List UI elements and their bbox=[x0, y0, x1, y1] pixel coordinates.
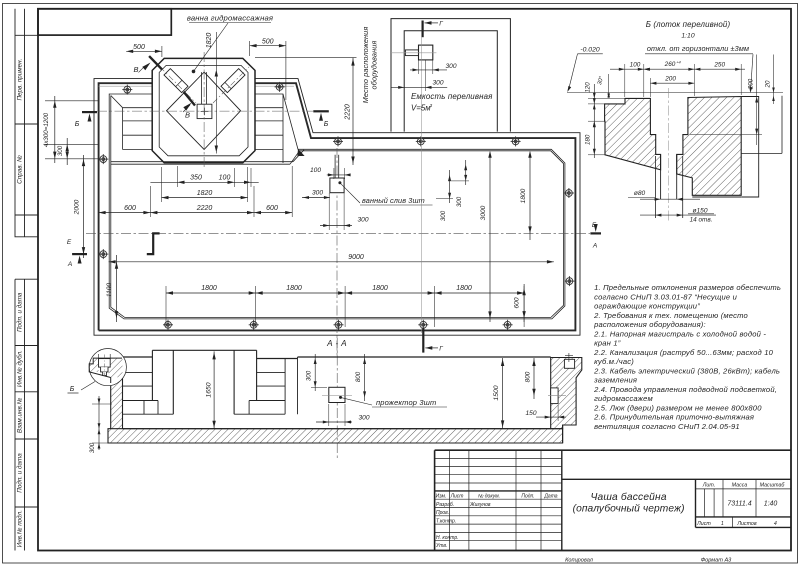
section A-A centerline bbox=[336, 338, 338, 458]
svg-text:Изм.: Изм. bbox=[436, 494, 447, 500]
section mark B-cut left bbox=[82, 111, 97, 113]
dim 300 tank upper bbox=[410, 69, 447, 71]
overflow tank bbox=[419, 45, 433, 60]
section floor slab hatched bbox=[108, 429, 563, 443]
svg-text:300: 300 bbox=[456, 196, 463, 207]
svg-text:100: 100 bbox=[219, 175, 231, 182]
svg-text:14 отв.: 14 отв. bbox=[690, 217, 713, 224]
section left wall hatched bbox=[111, 377, 123, 428]
svg-text:150: 150 bbox=[525, 410, 536, 417]
left vertical dim 4x300=1200 bbox=[45, 100, 98, 102]
svg-text:Разраб.: Разраб. bbox=[436, 502, 454, 508]
svg-text:2220: 2220 bbox=[196, 205, 213, 212]
svg-text:Е: Е bbox=[592, 222, 597, 229]
svg-text:500: 500 bbox=[262, 39, 274, 46]
svg-text:1:10: 1:10 bbox=[681, 33, 694, 40]
svg-text:100: 100 bbox=[310, 167, 321, 174]
pool plan outer thin outline R1 bbox=[94, 58, 580, 335]
svg-text:9000: 9000 bbox=[348, 254, 364, 261]
tank centerline bbox=[391, 52, 436, 54]
svg-text:Формат А3: Формат А3 bbox=[701, 558, 732, 564]
section cut B-B line bbox=[149, 56, 162, 69]
svg-text:2.2. Канализация (раструб 50..: 2.2. Канализация (раструб 50...63мм; рас… bbox=[593, 348, 774, 357]
svg-text:Подп.: Подп. bbox=[521, 494, 534, 500]
svg-text:300: 300 bbox=[440, 210, 447, 221]
detail circle callout bbox=[89, 349, 126, 386]
dim 300 drain left bbox=[302, 197, 330, 199]
svg-text:600: 600 bbox=[514, 297, 521, 308]
svg-text:1650: 1650 bbox=[206, 382, 213, 397]
stairs right of bath bbox=[255, 107, 283, 109]
equipment room outer wall bbox=[391, 19, 510, 132]
svg-text:300: 300 bbox=[358, 415, 369, 422]
svg-text:300: 300 bbox=[89, 442, 96, 453]
section basin floor line bbox=[123, 428, 551, 430]
svg-text:Б (лоток переливной): Б (лоток переливной) bbox=[646, 20, 731, 29]
dim 1820 under bath bbox=[162, 197, 248, 199]
svg-text:4х300=1200: 4х300=1200 bbox=[43, 112, 50, 147]
svg-text:300: 300 bbox=[445, 63, 456, 70]
svg-text:вентиляция согласно СНиП 2.04.: вентиляция согласно СНиП 2.04.05-91 bbox=[594, 422, 740, 431]
svg-text:2.6. Принудительная приточно-в: 2.6. Принудительная приточно-вытяжная bbox=[593, 413, 754, 422]
section A-A step mark bbox=[147, 233, 160, 254]
svg-text:300: 300 bbox=[432, 80, 443, 87]
dim 800 section right bbox=[533, 358, 535, 399]
bath inner octagon bbox=[159, 65, 248, 155]
svg-text:Н. контр.: Н. контр. bbox=[436, 535, 459, 541]
detail B white column bbox=[741, 97, 759, 198]
dim 300 drain bottom bbox=[320, 225, 352, 227]
bath drain pipe bbox=[201, 72, 203, 104]
dim 2220 vertical right of bath bbox=[255, 57, 357, 59]
svg-text:согласно СНиП 3.03.01-87 “Несу: согласно СНиП 3.03.01-87 “Несущие и bbox=[594, 292, 738, 301]
svg-text:2.3. Кабель электрический (380: 2.3. Кабель электрический (380В, 26кВт);… bbox=[593, 366, 780, 375]
section left stairs bbox=[123, 372, 153, 374]
dim 600 vertical right bbox=[523, 284, 525, 322]
svg-text:ванна гидромассажная: ванна гидромассажная bbox=[187, 14, 273, 23]
svg-text:Инв.№ подл.: Инв.№ подл. bbox=[16, 510, 24, 547]
hydromassage bath outer octagon bbox=[152, 58, 255, 162]
detail B right dim 20 bbox=[773, 55, 775, 105]
dim 300 tank lower bbox=[391, 86, 447, 88]
detail circle label bbox=[81, 382, 95, 391]
svg-text:Утв.: Утв. bbox=[436, 543, 447, 549]
left vertical dim 300 bbox=[66, 138, 68, 165]
svg-text:3000: 3000 bbox=[480, 205, 487, 220]
svg-text:500: 500 bbox=[133, 44, 145, 51]
svg-text:1: 1 bbox=[721, 521, 724, 527]
svg-text:Т.контр.: Т.контр. bbox=[436, 518, 456, 524]
elevated section bottom edge double line bbox=[111, 161, 293, 163]
svg-text:прожектор 3шт: прожектор 3шт bbox=[376, 398, 436, 407]
detail B right dim 200 bbox=[756, 55, 758, 146]
drain pipe from wall bbox=[334, 155, 336, 178]
svg-text:2.4. Провода управления подвод: 2.4. Провода управления подводной подсве… bbox=[593, 385, 777, 394]
svg-text:Подп. и дата: Подп. и дата bbox=[16, 292, 24, 332]
svg-text:300: 300 bbox=[312, 190, 323, 197]
svg-text:заземления: заземления bbox=[593, 376, 637, 385]
drain pipe inner d80 bbox=[660, 154, 662, 199]
pool plan gray edge line bbox=[99, 85, 153, 87]
svg-text:1820: 1820 bbox=[206, 33, 213, 49]
svg-text:300: 300 bbox=[306, 370, 313, 381]
svg-text:2000: 2000 bbox=[74, 199, 81, 215]
dim 500 right bbox=[250, 45, 286, 47]
svg-text:Инв.№ дубл.: Инв.№ дубл. bbox=[16, 350, 24, 387]
section right ledge bbox=[551, 388, 558, 404]
svg-text:1100: 1100 bbox=[106, 283, 113, 298]
svg-text:200: 200 bbox=[748, 78, 755, 90]
spotlight leader bbox=[341, 397, 373, 405]
svg-text:оборудования: оборудования bbox=[370, 41, 379, 90]
section mark B-cut right bbox=[313, 110, 329, 112]
dim 300 spotlight top bbox=[314, 354, 316, 391]
svg-text:1820: 1820 bbox=[197, 190, 213, 197]
svg-text:1800: 1800 bbox=[286, 285, 302, 292]
svg-text:Дата: Дата bbox=[543, 494, 557, 500]
dim 300 vertical drain b bbox=[465, 160, 467, 185]
svg-text:Лист: Лист bbox=[450, 494, 464, 500]
section bath left wall bbox=[151, 350, 153, 400]
dim 800 spotlight bbox=[364, 354, 366, 401]
dim 500 left bbox=[126, 50, 162, 52]
svg-text:№ докум.: № докум. bbox=[478, 494, 500, 500]
dim 100 drain bbox=[327, 174, 350, 176]
drain box in plan bbox=[330, 178, 344, 193]
svg-text:куб.м./час): куб.м./час) bbox=[594, 357, 634, 366]
detail B dia150 bbox=[640, 214, 716, 216]
top-left corner table bbox=[38, 9, 171, 35]
svg-text:А: А bbox=[67, 261, 72, 268]
dim row 600-2220-600 bbox=[99, 212, 293, 214]
dim 1650 section bbox=[213, 351, 215, 428]
svg-text:Справ. №: Справ. № bbox=[17, 155, 24, 184]
left vertical dim 2000 bbox=[83, 155, 85, 258]
svg-text:2.1. Напорная магистраль с хол: 2.1. Напорная магистраль с холодной водо… bbox=[593, 329, 766, 338]
svg-text:1800: 1800 bbox=[372, 285, 388, 292]
svg-text:2.5. Люк (двери) размером не м: 2.5. Люк (двери) размером не менее 800х8… bbox=[593, 403, 762, 412]
stairs left of bath bbox=[123, 107, 153, 109]
svg-text:Б: Б bbox=[324, 121, 329, 128]
dim 1100 vertical bbox=[116, 255, 118, 322]
mini gutter channel bbox=[99, 359, 111, 368]
pool vertical centerline bbox=[336, 148, 338, 358]
section mark E-A right bbox=[590, 232, 601, 234]
svg-text:ø150: ø150 bbox=[692, 207, 707, 214]
svg-text:Масштаб: Масштаб bbox=[760, 482, 786, 488]
slab right end bbox=[562, 425, 564, 443]
svg-text:А - А: А - А bbox=[326, 339, 347, 348]
svg-text:Г: Г bbox=[439, 346, 443, 353]
svg-text:3: 3 bbox=[430, 103, 433, 109]
dim row 1800x4 interior bbox=[166, 292, 524, 294]
detail B dim 200 top bbox=[650, 82, 694, 84]
svg-text:2. Требования к тех. помещению: 2. Требования к тех. помещению (место bbox=[593, 311, 748, 320]
dim 300 slab left bbox=[98, 396, 100, 450]
section right wall hatched bbox=[551, 358, 582, 429]
svg-text:В: В bbox=[185, 111, 190, 120]
jet nozzle upper-left bbox=[164, 69, 188, 93]
svg-text:Лист: Лист bbox=[696, 521, 711, 527]
svg-text:(опалубочный чертеж): (опалубочный чертеж) bbox=[573, 503, 685, 515]
bath vertical centerline bbox=[203, 52, 205, 168]
svg-text:Б: Б bbox=[70, 386, 75, 393]
svg-text:-0.020: -0.020 bbox=[580, 47, 599, 54]
anchor bolts bbox=[122, 85, 132, 95]
pool basin inner edge R4 bbox=[111, 96, 564, 318]
dim 9000 interior bbox=[109, 261, 554, 263]
svg-text:+4: +4 bbox=[676, 60, 681, 65]
svg-text:260: 260 bbox=[664, 61, 676, 68]
svg-text:А: А bbox=[592, 243, 597, 250]
svg-text:1800: 1800 bbox=[520, 188, 527, 203]
equipment room inner wall bbox=[404, 31, 497, 132]
svg-text:2220: 2220 bbox=[345, 104, 352, 121]
svg-text:Емкость переливная: Емкость переливная bbox=[411, 92, 493, 101]
section transition band bbox=[284, 359, 286, 415]
svg-text:Г: Г bbox=[439, 21, 443, 28]
svg-text:кран 1”: кран 1” bbox=[594, 339, 621, 348]
jet nozzle upper-right bbox=[221, 69, 245, 93]
svg-text:V=5м: V=5м bbox=[411, 104, 431, 113]
B-cut trace centerline bbox=[97, 110, 313, 112]
drain leader label bbox=[340, 183, 360, 203]
svg-text:Листов: Листов bbox=[736, 521, 757, 527]
svg-text:73111.4: 73111.4 bbox=[727, 501, 751, 508]
dim 300 spotlight bottom bbox=[316, 421, 352, 423]
detail B left dim 120 bbox=[593, 84, 595, 158]
section bath right wall bbox=[233, 350, 235, 414]
svg-text:Масса: Масса bbox=[732, 482, 748, 488]
svg-text:100: 100 bbox=[630, 62, 641, 69]
section mark G top bbox=[422, 21, 424, 38]
pool plan thick wall line R2 bbox=[99, 83, 576, 330]
svg-text:расположения оборудования):: расположения оборудования): bbox=[593, 320, 706, 329]
svg-text:В: В bbox=[133, 65, 138, 74]
svg-text:Чаша бассейна: Чаша бассейна bbox=[590, 491, 666, 503]
section top edge line bbox=[123, 356, 153, 358]
detail B left dim 180 bbox=[593, 121, 596, 127]
section mark G bottom bbox=[422, 328, 424, 353]
svg-text:350: 350 bbox=[190, 175, 202, 182]
svg-text:гидромассажем: гидромассажем bbox=[594, 394, 653, 403]
dim row 350-100 under bath bbox=[150, 181, 258, 183]
detail B centerline bbox=[668, 88, 670, 221]
svg-text:800: 800 bbox=[355, 371, 362, 382]
detail B hatched concrete right bbox=[677, 97, 742, 196]
drain pipe outer d150 bbox=[654, 156, 656, 218]
gutter mini profile in circle bbox=[89, 358, 122, 383]
svg-text:Пров.: Пров. bbox=[436, 510, 449, 516]
pool basin inner edge R3 bbox=[109, 94, 565, 319]
step transition diagonals bbox=[293, 150, 304, 162]
datum line bbox=[567, 92, 783, 94]
svg-text:1500: 1500 bbox=[493, 385, 500, 400]
svg-text:Лит.: Лит. bbox=[702, 482, 715, 488]
title block bbox=[435, 450, 791, 550]
svg-text:600: 600 bbox=[266, 205, 278, 212]
svg-text:откл. от горизонтали ±3мм: откл. от горизонтали ±3мм bbox=[647, 44, 749, 53]
section right stairs bbox=[257, 372, 286, 374]
dim 150 section bbox=[536, 416, 566, 418]
dim 1500 section bbox=[502, 358, 504, 428]
svg-text:800: 800 bbox=[525, 371, 532, 382]
svg-text:180: 180 bbox=[585, 134, 592, 145]
svg-text:Копировал: Копировал bbox=[565, 558, 594, 564]
svg-text:ограждающие конструкции”: ограждающие конструкции” bbox=[594, 302, 700, 311]
svg-text:120: 120 bbox=[585, 82, 592, 93]
svg-text:4: 4 bbox=[774, 521, 777, 527]
dim 1800 vertical interior bbox=[529, 155, 531, 240]
section mark E-A left bbox=[72, 253, 87, 255]
leader to surface right bbox=[751, 54, 754, 91]
svg-text:1. Предельные отклонения разме: 1. Предельные отклонения размеров обеспе… bbox=[594, 283, 781, 292]
svg-text:20: 20 bbox=[765, 80, 772, 88]
section bath rim line bbox=[152, 349, 256, 351]
G cut trace bbox=[420, 37, 422, 333]
bath drain box bbox=[197, 104, 212, 118]
spotlight box bbox=[329, 387, 345, 402]
dim 300 vertical drain a bbox=[449, 170, 451, 203]
svg-text:1:40: 1:40 bbox=[764, 501, 778, 508]
svg-text:600: 600 bbox=[124, 205, 136, 212]
svg-text:Перв. примен.: Перв. примен. bbox=[17, 59, 24, 101]
svg-text:Б: Б bbox=[75, 121, 80, 128]
svg-text:300: 300 bbox=[357, 217, 368, 224]
svg-text:Подп. и дата: Подп. и дата bbox=[16, 453, 24, 493]
svg-text:Е: Е bbox=[67, 239, 72, 246]
svg-text:ванный слив 3шт: ванный слив 3шт bbox=[362, 196, 425, 205]
dim 3000 vertical interior bbox=[489, 155, 491, 322]
svg-text:300: 300 bbox=[57, 145, 64, 156]
detail B right shelf bbox=[741, 152, 782, 154]
bath diamond basin bbox=[167, 72, 241, 149]
svg-text:200: 200 bbox=[664, 76, 676, 83]
svg-text:1800: 1800 bbox=[456, 285, 472, 292]
detail B top dim row 100-260-250 bbox=[610, 68, 745, 70]
left attribute strip bbox=[15, 9, 38, 551]
svg-text:Взам.инв.№: Взам.инв.№ bbox=[17, 397, 24, 433]
detail B hatched concrete left bbox=[605, 98, 661, 169]
svg-text:Жигунов: Жигунов bbox=[469, 502, 491, 508]
svg-text:250: 250 bbox=[713, 62, 725, 69]
pool horizontal centerline bbox=[86, 232, 590, 234]
section right wall gutter box bbox=[564, 359, 574, 368]
svg-text:1800: 1800 bbox=[201, 285, 217, 292]
svg-text:ø80: ø80 bbox=[634, 190, 646, 197]
basin top-left chamfer to stairs bbox=[111, 96, 123, 108]
